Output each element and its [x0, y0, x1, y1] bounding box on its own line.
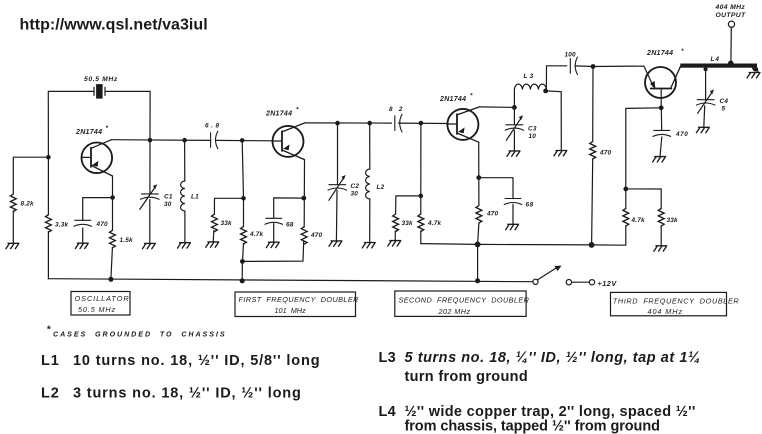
- svg-text:SECOND FREQUENCY DOUBLER: SECOND FREQUENCY DOUBLER: [399, 296, 530, 305]
- capacitor C3 10 variable: [505, 115, 524, 140]
- svg-text:L2: L2: [41, 386, 60, 402]
- node Q1 base junction: [46, 155, 51, 160]
- capacitor 68 second doubler: [504, 199, 534, 209]
- wire 470 d2 to feed junction: [478, 223, 479, 281]
- wire C2 branch: [336, 123, 337, 241]
- svg-text:470: 470: [486, 211, 499, 218]
- node C2 junction: [335, 121, 340, 126]
- svg-text:L3: L3: [379, 350, 397, 366]
- box second frequency doubler: [395, 291, 530, 316]
- wire doubler bus 101 MHz: [305, 122, 447, 125]
- label Q2 2N1744*: [265, 107, 299, 118]
- transistor Q2 2N1744 first doubler: [273, 123, 305, 160]
- svg-text:404 MHz: 404 MHz: [715, 4, 746, 11]
- svg-text:8 2: 8 2: [389, 106, 405, 113]
- wire bias chain first doubler: [213, 140, 243, 261]
- node Q4 base junction: [659, 105, 664, 110]
- svg-text:100: 100: [565, 52, 577, 59]
- box first frequency doubler: [235, 292, 359, 317]
- node 470 feed rail junction: [589, 242, 595, 248]
- resistor 4.7k second doubler: [418, 214, 442, 232]
- transistor Q1 2N1744 oscillator: [82, 140, 113, 176]
- label 50.5 MHz: [84, 76, 118, 83]
- svg-text:3 turns no. 18, ½'' ID, ½'' lo: 3 turns no. 18, ½'' ID, ½'' long: [73, 386, 302, 402]
- ground under 68 d1: [266, 242, 279, 247]
- resistor 3.3k: [46, 215, 69, 233]
- capacitor C2 30 variable: [328, 175, 347, 200]
- node Q3 emitter junction: [476, 175, 481, 180]
- node feed junction d2: [475, 242, 481, 248]
- capacitor 6.8 coupling: [205, 123, 222, 149]
- svg-text:2N1744: 2N1744: [646, 50, 673, 57]
- svg-text:470: 470: [96, 221, 109, 228]
- svg-text:*: *: [106, 125, 109, 132]
- node Q3 collector junction: [512, 105, 517, 110]
- wire feed rail y245: [478, 226, 626, 245]
- capacitor 8.2 coupling: [389, 106, 405, 132]
- svg-text:C2: C2: [351, 183, 360, 190]
- ground under L2: [362, 243, 375, 248]
- ground under C2: [329, 241, 342, 246]
- wire Q3 collector to tank: [479, 90, 514, 151]
- resistor 8.2k: [10, 194, 34, 212]
- wire Q4 base input: [593, 66, 653, 86]
- svg-text:10: 10: [529, 133, 537, 140]
- svg-text:101 MHz: 101 MHz: [275, 306, 307, 315]
- terminal +12V pair: [566, 280, 594, 285]
- resistor 33k second doubler: [393, 214, 413, 232]
- svg-text:4.7k: 4.7k: [631, 217, 645, 224]
- node L1 junction: [182, 138, 187, 143]
- wire Q1 base to 8.2k: [13, 157, 48, 243]
- label 404 MHz OUTPUT: [715, 4, 747, 19]
- ground under 470 q4: [653, 157, 666, 162]
- node L2 junction: [367, 121, 372, 126]
- resistor 470 first doubler: [301, 227, 322, 245]
- svg-text:THIRD FREQUENCY DOUBLER: THIRD FREQUENCY DOUBLER: [613, 297, 740, 306]
- resistor 470 second doubler: [476, 206, 499, 224]
- note L2: [41, 386, 302, 402]
- svg-text:68: 68: [286, 222, 294, 229]
- svg-text:2N1744: 2N1744: [75, 129, 102, 136]
- wire collector bus 50 MHz: [112, 140, 273, 141]
- node 100 cap junction: [591, 64, 596, 69]
- resistor 4.7k first doubler: [241, 227, 264, 245]
- inductor L1: [181, 181, 200, 211]
- wire L1 branch: [184, 140, 186, 243]
- node bias d1: [241, 196, 246, 201]
- svg-text:470: 470: [599, 150, 612, 157]
- note L1: [41, 353, 320, 369]
- ground under L3: [554, 151, 567, 156]
- svg-text:68: 68: [526, 202, 534, 209]
- transistor Q4 2N1744 third doubler: [645, 66, 681, 108]
- svg-text:202 MHz: 202 MHz: [438, 307, 471, 316]
- ground under 33k d3: [654, 246, 667, 251]
- node second doubler bias junction: [419, 121, 424, 126]
- svg-text:2N1744: 2N1744: [439, 96, 466, 103]
- svg-text:50.5 MHz: 50.5 MHz: [84, 76, 118, 83]
- capacitor 470 third doubler bypass: [653, 108, 688, 157]
- ground at L4 right end: [747, 73, 760, 78]
- ground under 68 d2: [506, 224, 519, 229]
- box oscillator stage: [71, 292, 130, 316]
- capacitor C4 5 variable: [696, 67, 715, 127]
- svg-text:*: *: [47, 325, 52, 336]
- svg-text:L3: L3: [524, 73, 536, 80]
- node L3 tap junction: [543, 89, 548, 94]
- svg-text:L1: L1: [41, 353, 60, 369]
- svg-text:2N1744: 2N1744: [265, 111, 292, 118]
- svg-text:6.8: 6.8: [205, 123, 222, 130]
- node Q4 bias junction: [623, 187, 628, 192]
- svg-text:turn from ground: turn from ground: [405, 369, 529, 385]
- ground under C1: [142, 243, 155, 248]
- resistor 470 third stage feed: [590, 142, 612, 160]
- wire Q1 emitter node: [83, 176, 113, 243]
- svg-text:from chassis, tapped ½'' from: from chassis, tapped ½'' from ground: [405, 419, 660, 434]
- node C1 junction: [148, 138, 153, 143]
- svg-text:1.5k: 1.5k: [120, 237, 133, 244]
- node 1.5k rail junction: [108, 277, 113, 282]
- svg-text:50.5 MHz: 50.5 MHz: [78, 305, 116, 314]
- capacitor 100 coupling: [565, 52, 578, 75]
- svg-text:470: 470: [310, 232, 323, 239]
- svg-text:C3: C3: [528, 126, 537, 133]
- capacitor 470 oscillator bypass: [74, 220, 108, 228]
- ground under L1: [178, 243, 191, 248]
- inductor L4 copper trap bar: [680, 56, 758, 72]
- node Q2 emitter junction: [301, 196, 306, 201]
- svg-text:404 MHz: 404 MHz: [648, 307, 684, 316]
- node L4 tap: [728, 61, 734, 67]
- node d1 rail junction: [240, 278, 245, 283]
- terminal 404 MHz output: [728, 21, 734, 27]
- svg-text:OUTPUT: OUTPUT: [716, 12, 747, 19]
- label Q1 2N1744*: [75, 125, 109, 136]
- inductor L2: [366, 169, 385, 200]
- svg-text:5 turns no. 18, ¼'' ID, ½'' lo: 5 turns no. 18, ¼'' ID, ½'' long, tap at…: [405, 350, 701, 366]
- label C2 30: [351, 183, 360, 197]
- wire L3 right to ground: [546, 91, 562, 151]
- svg-text:4.7k: 4.7k: [427, 220, 441, 227]
- ground under 33k d1: [206, 242, 219, 247]
- wire d1 link down to rail: [241, 261, 243, 281]
- ground under C4: [696, 127, 709, 132]
- wire L2 branch: [369, 123, 371, 242]
- svg-text:CASES GROUNDED TO CHASSIS: CASES GROUNDED TO CHASSIS: [53, 331, 227, 339]
- label +12V: [598, 279, 618, 288]
- wire oscillator top loop: [48, 91, 150, 157]
- label Q3 2N1744*: [439, 93, 473, 104]
- svg-text:+12V: +12V: [598, 279, 618, 288]
- svg-text:http://www.qsl.net/va3iul: http://www.qsl.net/va3iul: [20, 17, 208, 34]
- svg-text:470: 470: [675, 131, 688, 138]
- ground under 470: [75, 243, 88, 248]
- svg-text:33k: 33k: [667, 217, 679, 224]
- resistor 33k third doubler: [658, 208, 678, 226]
- svg-text:5: 5: [722, 106, 726, 113]
- crystal Y1 50.5 MHz: [94, 84, 105, 99]
- svg-text:33k: 33k: [402, 220, 414, 227]
- svg-text:3.3k: 3.3k: [55, 221, 68, 228]
- svg-text:OSCILLATOR: OSCILLATOR: [75, 294, 130, 303]
- box third frequency doubler: [611, 292, 740, 316]
- wire 1.5k to rail: [111, 248, 113, 279]
- svg-text:*: *: [296, 107, 299, 114]
- resistor 1.5k: [110, 230, 133, 248]
- svg-text:C1: C1: [164, 194, 173, 201]
- svg-text:4.7k: 4.7k: [249, 231, 263, 238]
- node rail junction d2: [475, 278, 480, 283]
- label C4 5: [720, 98, 729, 113]
- ground under C3: [507, 151, 520, 156]
- node first doubler bias junction: [240, 138, 245, 143]
- label Q4 2N1744*: [646, 48, 684, 57]
- transistor Q3 2N1744 second doubler: [447, 107, 479, 142]
- wire L3 to 100 cap: [546, 66, 593, 90]
- capacitor C1 30 variable: [140, 184, 159, 209]
- wire output stem: [730, 27, 732, 63]
- note cases grounded: [47, 325, 227, 339]
- capacitor 68 first doubler: [265, 218, 294, 228]
- node d1 link junction: [240, 259, 245, 264]
- ground under 8.2k: [6, 243, 19, 248]
- svg-text:L4: L4: [379, 404, 397, 420]
- wire 3.3k branch: [47, 157, 49, 279]
- wire supply rail: [48, 279, 533, 282]
- note L3: [379, 350, 701, 385]
- switch S1: [533, 266, 562, 285]
- svg-text:L4: L4: [711, 56, 720, 63]
- svg-text:8.2k: 8.2k: [21, 201, 34, 208]
- wire C1 branch: [149, 140, 151, 243]
- node bias d2: [419, 194, 424, 199]
- wire bias chain second doubler: [395, 123, 421, 244]
- svg-text:*: *: [470, 93, 473, 100]
- ground under 33k d2: [388, 241, 401, 246]
- label C3 10: [528, 126, 537, 141]
- svg-text:33k: 33k: [221, 220, 233, 227]
- wire Q4 base bias network: [626, 108, 661, 246]
- svg-text:30: 30: [351, 190, 359, 197]
- note L4: [379, 404, 696, 434]
- svg-text:*: *: [681, 48, 684, 55]
- wire Q3 emitter network: [479, 142, 513, 224]
- svg-text:FIRST FREQUENCY DOUBLER: FIRST FREQUENCY DOUBLER: [239, 295, 360, 304]
- wire d2 4.7k to feed rail: [421, 243, 478, 246]
- node Q1 emitter junction: [110, 195, 115, 200]
- wire Q2 emitter network: [274, 160, 305, 243]
- svg-text:L2: L2: [377, 184, 385, 191]
- svg-text:C4: C4: [720, 98, 729, 105]
- wire link d1 to rail: [243, 241, 304, 262]
- wire 470 feed branch: [592, 67, 593, 245]
- label C1 30: [164, 194, 173, 209]
- svg-text:30: 30: [164, 201, 172, 208]
- resistor 4.7k third doubler: [623, 208, 645, 226]
- resistor 33k first doubler: [212, 214, 233, 232]
- svg-text:L1: L1: [191, 194, 199, 201]
- inductor L3: [514, 73, 546, 91]
- svg-text:10 turns no. 18, ½'' ID, 5/8'': 10 turns no. 18, ½'' ID, 5/8'' long: [73, 353, 320, 369]
